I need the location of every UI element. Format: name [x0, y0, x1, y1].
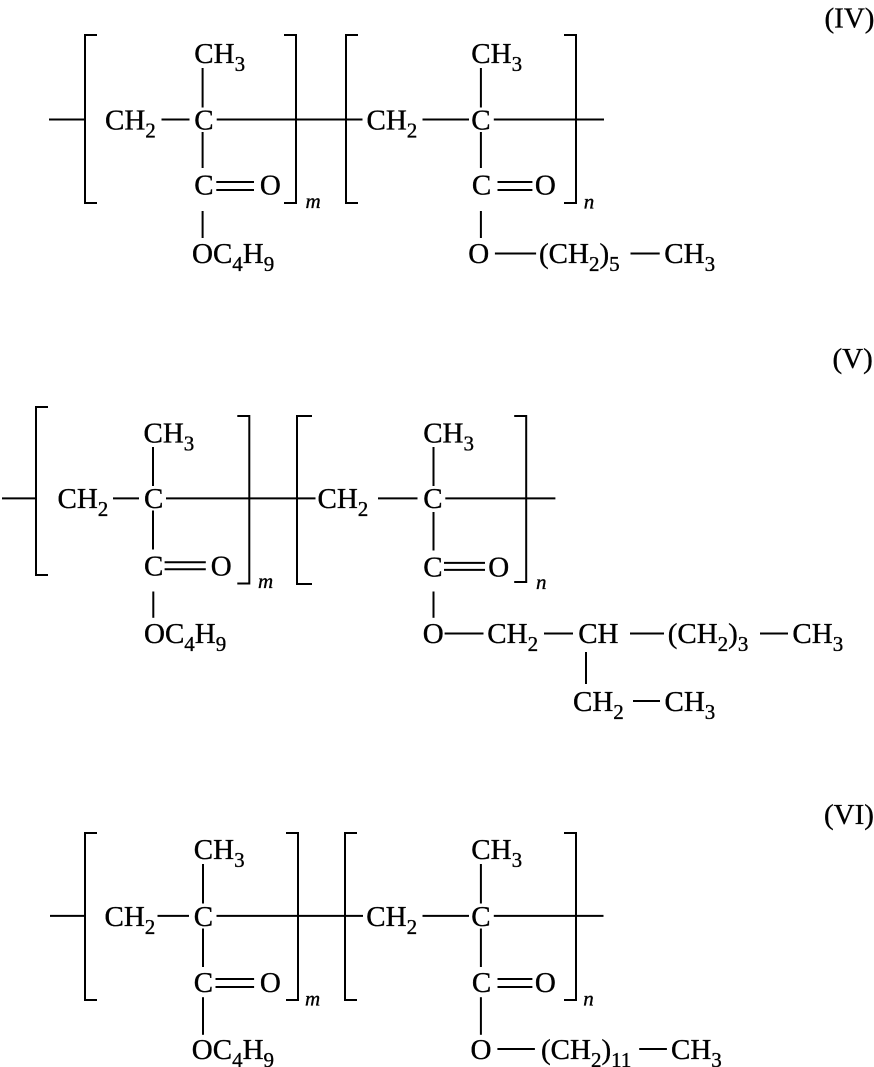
bond C-C(=O) IV-n [480, 132, 482, 168]
bond C-bracket VI-n [494, 915, 576, 917]
bond C(=O)-O IV-n [480, 211, 482, 238]
svg-text:(CH2)5: (CH2)5 [539, 238, 620, 276]
bond C-CH3 VI-m [202, 864, 204, 904]
bond C-C(=O) VI-n [480, 929, 482, 968]
bond CH2-C V-m [113, 497, 139, 499]
wire backbone mid V [249, 497, 315, 499]
bond C(=O)-O VI-m [202, 997, 204, 1035]
bond C-CH3 V-m [152, 447, 154, 486]
svg-text:CH2: CH2 [366, 901, 417, 939]
bond CH2-CH V tail [544, 633, 573, 635]
double bond C=O IV-m [216, 181, 254, 183]
svg-text:OC4H9: OC4H9 [192, 1034, 274, 1067]
bond CH2-C VI-m [158, 915, 190, 917]
svg-text:C: C [471, 105, 490, 137]
svg-text:CH3: CH3 [471, 38, 522, 76]
bond C(=O)-O V-m [152, 592, 154, 618]
wire backbone lead-in VI [50, 915, 85, 917]
bracket right V-m [237, 416, 249, 584]
bracket right VI-m [286, 833, 298, 1000]
bond C-bracket V-m [166, 497, 249, 499]
wire backbone mid VI [298, 915, 363, 917]
bond C-bracket IV-n [494, 119, 576, 121]
bond CH2-C IV-n [423, 119, 470, 121]
wire backbone mid IV [296, 119, 363, 121]
bracket right IV-n [564, 35, 576, 203]
bond C-CH3 VI-n [480, 864, 482, 904]
bond C-C(=O) IV-m [202, 132, 204, 168]
svg-text:CH3: CH3 [665, 686, 716, 724]
bond C-CH3 IV-n [480, 68, 482, 108]
svg-text:CH3: CH3 [471, 834, 522, 872]
svg-text:CH3: CH3 [664, 238, 715, 276]
svg-text:O: O [488, 552, 509, 584]
svg-text:C: C [423, 552, 442, 584]
svg-text:(VI): (VI) [824, 799, 874, 831]
bracket right VI-n [564, 833, 576, 1000]
bracket left V-n [297, 416, 312, 584]
bond C-bracket VI-m [217, 915, 299, 917]
svg-text:C: C [472, 967, 491, 999]
bond CH2-C VI-n [423, 915, 470, 917]
svg-text:OC4H9: OC4H9 [192, 238, 274, 276]
svg-text:O: O [260, 967, 281, 999]
svg-text:O: O [471, 1034, 492, 1066]
bond (CH2)3-CH3 V tail [760, 633, 788, 635]
wire backbone out IV [576, 119, 604, 121]
svg-text:C: C [423, 483, 442, 515]
svg-text:OC4H9: OC4H9 [144, 618, 226, 656]
wire backbone lead-in V [2, 497, 36, 499]
svg-text:CH2: CH2 [105, 901, 156, 939]
svg-text:(CH2)3: (CH2)3 [668, 618, 749, 656]
bond C-bracket V-n [445, 497, 526, 499]
bond CH-CH2 branch V [585, 652, 587, 684]
bond C-CH3 IV-m [202, 68, 204, 108]
bond C-C(=O) VI-m [202, 929, 204, 968]
bond CH-(CH2)3 V tail [630, 633, 664, 635]
svg-text:O: O [423, 618, 444, 650]
svg-text:n: n [583, 987, 594, 1011]
svg-text:(IV): (IV) [825, 3, 874, 35]
wire backbone lead-in IV [49, 119, 85, 121]
svg-text:O: O [535, 967, 556, 999]
svg-text:CH2: CH2 [58, 483, 109, 521]
svg-text:m: m [305, 987, 320, 1011]
bond (CH2)11-CH3 VI [639, 1048, 667, 1050]
svg-text:CH3: CH3 [792, 618, 843, 656]
svg-text:(V): (V) [833, 343, 873, 375]
bond C(=O)-O IV-m [202, 211, 204, 238]
bracket left IV-n [346, 35, 358, 203]
svg-text:CH2: CH2 [367, 105, 418, 143]
svg-text:CH2: CH2 [105, 105, 156, 143]
svg-text:CH2: CH2 [573, 686, 624, 724]
svg-text:O: O [535, 170, 556, 202]
svg-text:CH: CH [578, 618, 618, 650]
bond C(=O)-O V-n [433, 592, 435, 618]
bracket right IV-m [284, 35, 296, 203]
svg-text:C: C [194, 901, 213, 933]
bond C-C(=O) V-n [433, 512, 435, 551]
double bond C=O VI-m [216, 978, 255, 980]
bracket left VI-m [85, 833, 97, 1000]
svg-text:(CH2)11: (CH2)11 [541, 1034, 631, 1067]
svg-text:CH2: CH2 [487, 618, 538, 656]
wire backbone out VI [576, 915, 604, 917]
svg-text:CH3: CH3 [144, 418, 195, 456]
svg-text:C: C [471, 901, 490, 933]
bond C-CH3 V-n [433, 447, 435, 486]
svg-text:CH3: CH3 [671, 1034, 722, 1067]
svg-text:m: m [258, 569, 273, 593]
bond O-(CH2)11 VI [497, 1048, 535, 1050]
svg-text:O: O [211, 551, 232, 583]
bond C-bracket IV-m [217, 119, 296, 121]
bond C-C(=O) V-m [152, 511, 154, 550]
svg-text:C: C [472, 170, 491, 202]
bond C(=O)-O VI-n [480, 997, 482, 1035]
bond O-CH2 V tail [445, 633, 484, 635]
bond (CH2)5-CH3 IV [631, 253, 660, 255]
svg-text:C: C [144, 483, 163, 515]
bond O-(CH2)5 IV [495, 253, 536, 255]
svg-text:n: n [536, 570, 547, 594]
svg-text:O: O [260, 170, 281, 202]
double bond C=O IV-n [498, 181, 533, 183]
svg-text:C: C [144, 551, 163, 583]
svg-text:O: O [468, 238, 489, 270]
svg-text:C: C [194, 105, 213, 137]
svg-text:n: n [584, 190, 595, 214]
bond CH2-C IV-m [162, 119, 190, 121]
double bond C=O VI-n [498, 978, 533, 980]
svg-text:CH2: CH2 [318, 483, 369, 521]
bond CH2-C V-n [378, 497, 418, 499]
svg-text:CH3: CH3 [194, 834, 245, 872]
svg-text:C: C [194, 967, 213, 999]
wire backbone out V [526, 497, 555, 499]
svg-text:m: m [306, 189, 321, 213]
bracket left VI-n [345, 833, 357, 1000]
bond CH2-CH3 branch V [633, 700, 660, 702]
double bond C=O V-m [165, 561, 206, 563]
svg-text:C: C [194, 170, 213, 202]
bracket left IV-m [85, 35, 97, 203]
bracket left V-m [36, 407, 48, 575]
svg-text:CH3: CH3 [423, 418, 474, 456]
bracket right V-n [514, 416, 526, 582]
double bond C=O V-n [444, 562, 485, 564]
